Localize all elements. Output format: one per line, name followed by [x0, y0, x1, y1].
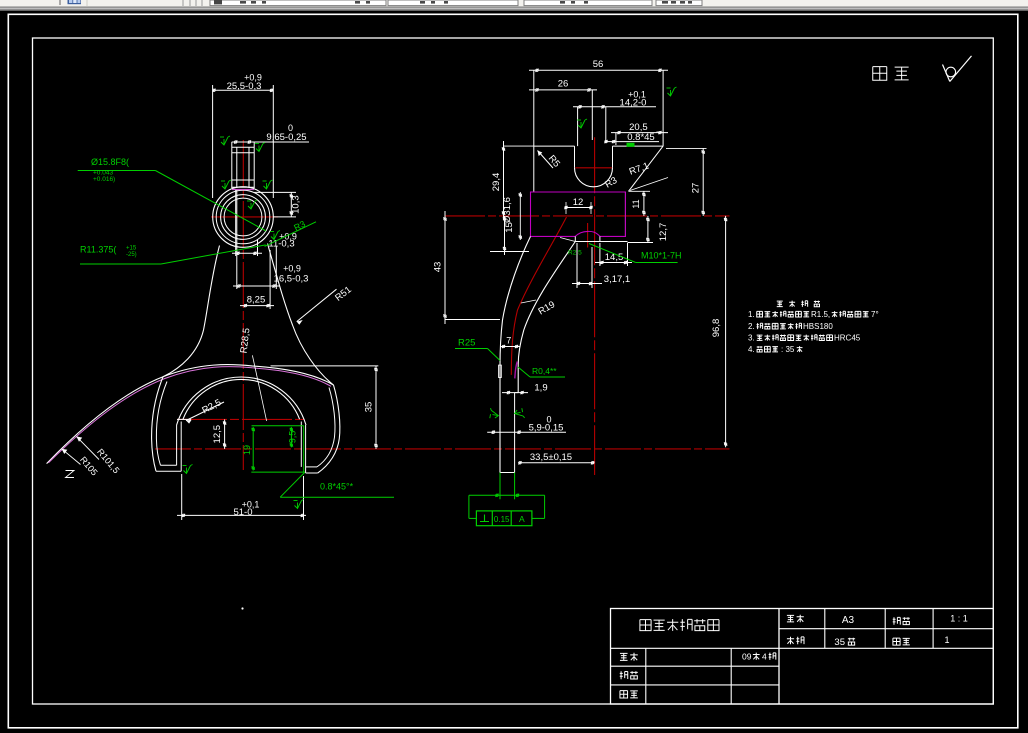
svg-text:27: 27	[691, 183, 702, 194]
dim 7 blade	[501, 336, 520, 349]
blade left S-curve	[500, 236, 531, 472]
svg-text:51-0: 51-0	[233, 507, 252, 518]
svg-text:33,5±0,15: 33,5±0,15	[530, 452, 572, 463]
note 2	[748, 322, 833, 331]
svg-text:0.8*45: 0.8*45	[627, 132, 654, 143]
note 3	[748, 334, 861, 343]
note 1	[748, 310, 879, 319]
green leader dia15.8F8	[78, 157, 266, 231]
value 1:1	[950, 614, 968, 624]
dim 1.9	[502, 383, 548, 395]
svg-text:9,65-0,25: 9,65-0,25	[266, 132, 306, 143]
title block grid	[611, 609, 994, 705]
green chamfer leader 0.8x45	[280, 472, 394, 497]
svg-text:-25): -25)	[126, 252, 137, 258]
svg-text:4.: 4.	[748, 345, 755, 354]
crescent outer left	[152, 377, 163, 471]
svg-text:11: 11	[631, 199, 641, 208]
label R7.1	[628, 161, 668, 191]
dim 14.2	[573, 90, 656, 147]
label R101.5	[76, 436, 121, 475]
svg-text:A3: A3	[842, 615, 855, 626]
label 比例	[893, 617, 910, 625]
label 设计	[620, 653, 638, 661]
label R3 white	[603, 175, 619, 191]
svg-text:14,2-0: 14,2-0	[620, 97, 647, 108]
svg-text:+15: +15	[126, 246, 137, 252]
dim 27	[666, 148, 707, 216]
bore chamfer circle	[221, 195, 266, 240]
svg-text:R1.5,: R1.5,	[811, 310, 830, 319]
dim 14.5	[595, 243, 632, 266]
dim 8.25	[240, 250, 274, 309]
dim 9.65	[232, 123, 309, 144]
left view centerline vertical	[242, 140, 244, 470]
svg-text:R25: R25	[458, 338, 475, 349]
left prong bottom	[156, 465, 181, 471]
svg-text:11-0,3: 11-0,3	[268, 238, 294, 249]
fork top sweep white R105	[47, 365, 334, 464]
svg-text:+0.016): +0.016)	[93, 176, 115, 183]
crescent outer right	[318, 385, 340, 473]
note 4	[748, 345, 802, 354]
svg-text:26: 26	[558, 79, 569, 90]
fork top sweep magenta R101.5	[49, 367, 332, 463]
datum frame	[476, 511, 532, 526]
dim dia31.6	[502, 192, 522, 240]
dim 51	[177, 474, 306, 520]
svg-text:09: 09	[742, 652, 752, 662]
green leader R11.375	[80, 245, 266, 265]
right prong bottom	[306, 467, 318, 473]
hub section magenta rect	[531, 192, 626, 236]
svg-text:1: 1	[944, 635, 949, 645]
svg-text:43: 43	[433, 262, 444, 273]
svg-text:HBS180: HBS180	[803, 322, 833, 331]
svg-text:Ø15.8F8(: Ø15.8F8(	[91, 157, 129, 167]
svg-text:R11.375(: R11.375(	[80, 245, 116, 255]
main horizontal centerline y449	[155, 448, 730, 450]
dim 16.5	[233, 190, 308, 289]
finish symbol	[943, 56, 972, 82]
bore circle	[224, 198, 262, 236]
svg-text:: 35: : 35	[781, 345, 795, 354]
rv red horizontal y216	[445, 215, 730, 217]
boss outer circle	[213, 187, 274, 248]
shaft outline	[232, 142, 254, 188]
value 35钢	[834, 637, 855, 648]
green dim 19	[242, 427, 255, 471]
dim 96.8	[711, 216, 727, 447]
horseshoe outer arc R28.5	[177, 377, 306, 425]
hub bottom white line	[575, 236, 627, 241]
stray point mark	[241, 607, 243, 609]
svg-text:8,25: 8,25	[247, 294, 266, 305]
value 1	[944, 635, 949, 645]
svg-text:7: 7	[506, 336, 511, 346]
svg-text:12,5: 12,5	[212, 425, 223, 444]
svg-text:1,9: 1,9	[534, 383, 547, 394]
green label M10x1-7H	[589, 244, 682, 263]
qiyu text	[873, 67, 909, 81]
dim 25.5 top	[212, 73, 273, 199]
svg-text:1 : 1: 1 : 1	[950, 614, 968, 624]
dim 56	[529, 59, 668, 146]
label R19	[521, 299, 557, 317]
hub left white stub	[560, 238, 575, 242]
rv red axis vertical	[594, 137, 596, 475]
svg-text:1.: 1.	[748, 310, 755, 319]
label 绘图	[620, 671, 638, 679]
boss circle r27	[216, 190, 270, 244]
green gauge rect	[251, 426, 305, 472]
svg-text:9,5: 9,5	[288, 431, 298, 444]
label 图号	[787, 615, 804, 623]
dim 5.9	[487, 414, 566, 434]
hub white outline rect	[531, 192, 626, 236]
shaft magenta seat line	[232, 189, 254, 191]
value 09年4月	[742, 652, 776, 662]
dim 11 rv	[629, 191, 651, 216]
label R28.5	[239, 327, 267, 420]
label R5	[538, 151, 563, 170]
dim 12.5	[212, 419, 226, 449]
rv red U center line	[575, 167, 612, 169]
break mark Z	[66, 471, 75, 478]
crescent rim right	[317, 388, 335, 467]
neck left edge	[163, 246, 220, 377]
svg-text:0.15: 0.15	[494, 515, 510, 524]
svg-text:3.: 3.	[748, 334, 755, 343]
dim 0.8x45 top	[604, 130, 659, 147]
dim 43	[433, 211, 501, 324]
svg-text:12,7: 12,7	[658, 223, 669, 242]
crescent rim left	[156, 382, 167, 466]
svg-text:R0,4**: R0,4**	[532, 366, 557, 376]
toolbar strip	[0, 0, 1028, 11]
svg-text:7°: 7°	[871, 310, 879, 319]
label 审核	[620, 691, 638, 698]
label R51	[297, 284, 354, 324]
mouth top red line	[177, 418, 306, 420]
svg-text:4: 4	[762, 652, 767, 662]
label R0.4 green	[518, 366, 565, 377]
value A3	[842, 615, 855, 626]
svg-text:15: 15	[504, 222, 515, 233]
mouth left wall	[177, 422, 182, 472]
svg-text:25,5-0,3: 25,5-0,3	[227, 81, 262, 92]
datum extension green	[469, 473, 545, 519]
svg-text:M10*1-7H: M10*1-7H	[641, 251, 682, 261]
svg-text:R2.5: R2.5	[568, 250, 582, 257]
green leader R3	[265, 219, 316, 247]
title text 变速器换档叉	[640, 619, 719, 631]
notes title	[777, 301, 820, 307]
svg-text:+0,9: +0,9	[283, 263, 301, 273]
dim 3.1 7.1	[572, 243, 630, 288]
green finish marks left view	[183, 136, 304, 509]
svg-text:96,8: 96,8	[711, 319, 722, 338]
toolbar combo boxes	[210, 0, 702, 6]
green finish marks rv	[489, 87, 677, 420]
horseshoe inner arc	[183, 379, 300, 419]
rv red M10 axis	[587, 223, 589, 248]
rv U slot arc	[575, 168, 613, 187]
svg-text:16,5-0,3: 16,5-0,3	[274, 273, 309, 284]
blade right lower edge	[500, 393, 518, 473]
green dim 9.5	[288, 427, 298, 447]
dim 11	[232, 190, 297, 256]
dim 12.7	[628, 216, 670, 243]
dim 35	[271, 366, 379, 449]
toolbar blue icon	[68, 0, 82, 4]
svg-text:5,9-0,15: 5,9-0,15	[529, 423, 564, 434]
dim 10.3	[254, 192, 301, 217]
svg-text:HRC45: HRC45	[834, 334, 861, 343]
dim 20.5	[611, 122, 668, 145]
neck right edge R51	[268, 244, 334, 386]
blade left step mark	[499, 365, 502, 377]
svg-text:56: 56	[593, 59, 604, 70]
label R25 green	[455, 338, 500, 361]
mouth right wall	[301, 422, 305, 474]
label R2.5	[177, 397, 224, 423]
svg-text:10,3: 10,3	[291, 195, 302, 214]
svg-text:°: °	[656, 130, 659, 138]
label 数量	[893, 638, 910, 645]
dim 26	[529, 79, 597, 141]
rv top outline	[534, 146, 663, 192]
dim 29.4	[491, 141, 534, 220]
svg-text:19: 19	[242, 445, 252, 455]
svg-text:2.: 2.	[748, 322, 755, 331]
svg-text:29,4: 29,4	[491, 173, 502, 192]
svg-text:35: 35	[834, 637, 845, 648]
blade right S-curve	[518, 242, 575, 393]
toolbar separators	[60, 0, 202, 6]
label 材料	[787, 637, 804, 645]
svg-text:3,17,1: 3,17,1	[604, 274, 630, 285]
svg-text:35: 35	[364, 402, 375, 413]
rv red blade centerline	[511, 217, 566, 375]
dim 33.5	[518, 452, 594, 464]
svg-text:12: 12	[573, 197, 584, 208]
svg-text:0.8*45°*: 0.8*45°*	[320, 482, 354, 492]
dim 15	[490, 216, 529, 255]
dim 12 hub	[564, 197, 592, 214]
blade magenta chamfer sliver	[515, 362, 518, 379]
svg-text:A: A	[519, 514, 525, 524]
green tiny R2.5	[568, 250, 582, 257]
left view boss horizontal centerline	[211, 216, 278, 218]
label R105	[62, 449, 100, 478]
